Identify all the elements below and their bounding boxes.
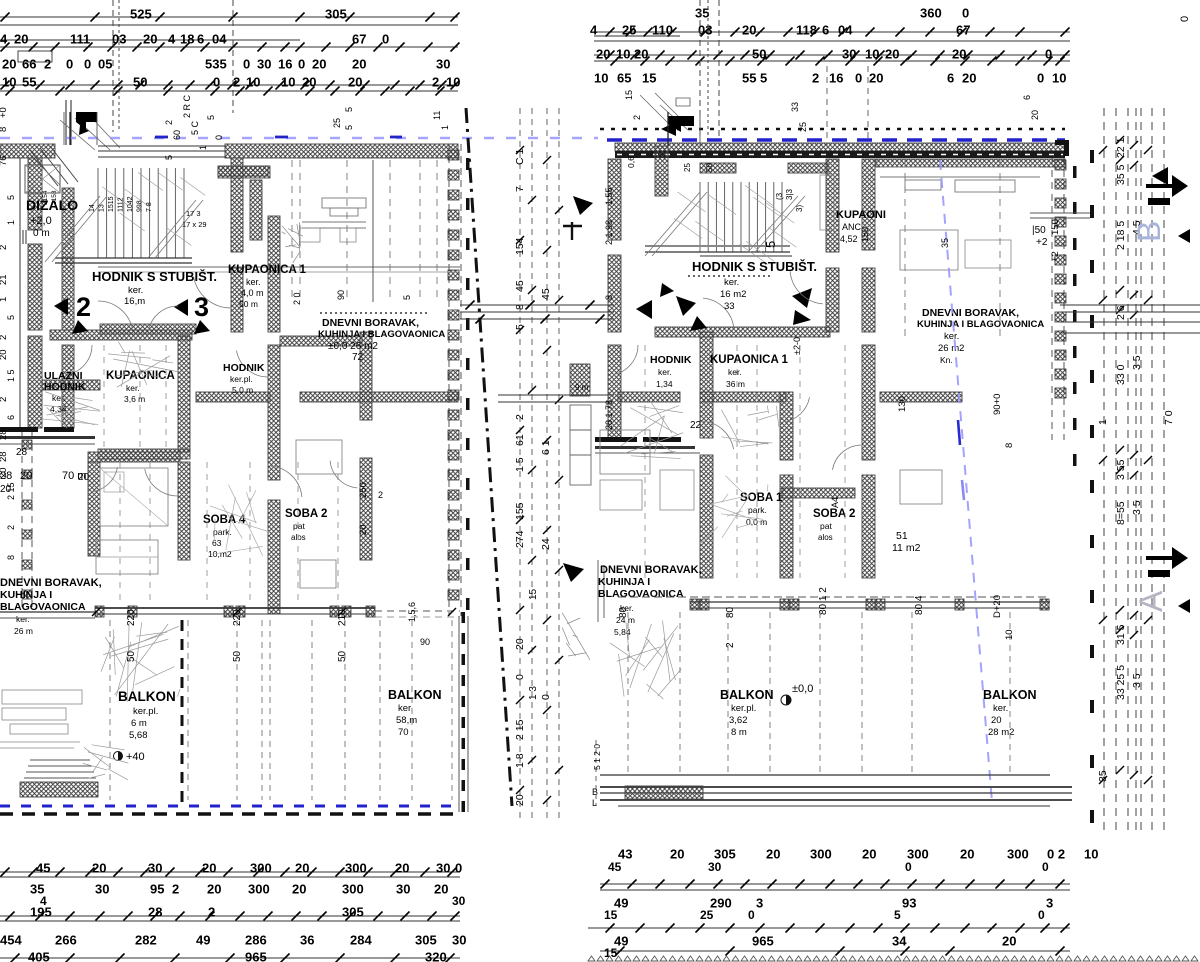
svg-text:20: 20 [292,881,306,896]
door arcs RU [613,271,861,470]
svg-text:1 5: 1 5 [6,369,16,382]
svg-text:0 2: 0 2 [1047,846,1065,861]
bold dashed vertical x182 [181,620,184,802]
svg-text:0,6: 0,6 [626,156,636,168]
svg-text:0: 0 [66,56,73,71]
wall hatch RU vert2 [608,345,621,438]
svg-text:4: 4 [168,31,176,46]
svg-text:110: 110 [652,22,673,37]
svg-text:1 8: 1 8 [514,753,526,768]
svg-text:28: 28 [0,451,9,462]
svg-text:0: 0 [514,674,526,680]
svg-text:28 1 78: 28 1 78 [604,400,614,430]
wall hatched left-edge seg2 [28,336,42,428]
terrace steps LU [24,760,96,778]
svg-text:3: 3 [756,895,763,910]
second hatch top RU [876,159,1065,167]
balcony railing RU [618,597,1050,610]
right margin bold dash col [1090,150,1094,823]
svg-text:220: 220 [126,609,137,626]
svg-text:DNEVNI BORAVAK,: DNEVNI BORAVAK, [322,317,419,329]
svg-text:50: 50 [705,163,714,172]
svg-text:4,52: 4,52 [840,234,858,244]
svg-text:11 m2: 11 m2 [892,542,921,554]
text 150+2 RU east [1032,225,1048,248]
sink icons LU [285,245,295,247]
svg-text:30: 30 [452,894,466,908]
room label SOBA 1 RU [740,492,783,527]
svg-text:0: 0 [455,860,462,875]
svg-text:150: 150 [860,227,870,242]
svg-text:6: 6 [947,70,954,85]
svg-text:1: 1 [440,125,450,130]
svg-text:21: 21 [0,274,9,285]
dim numbers BR rowC2 [604,908,1045,922]
wall hatch RU vert1 [608,255,621,332]
window black bars RU [595,437,700,453]
wall insulation black band RU [615,151,1065,158]
balcony guides LU [110,620,452,800]
entry jambs RU [668,112,700,146]
svg-text:04: 04 [212,31,227,46]
dim ticks BL r1 [1,868,457,877]
parcel line blue darker dashes [155,136,402,139]
svg-text:10: 10 [1052,70,1066,85]
svg-text:286: 286 [245,932,267,947]
svg-text:±2-0: ±2-0 [792,337,802,355]
bed SOBA2 [296,440,342,474]
svg-text:8=55: 8=55 [1115,501,1127,525]
svg-text:KUPAONI: KUPAONI [836,209,886,221]
svg-text:67: 67 [352,31,366,46]
svg-text:3): 3) [795,205,804,212]
svg-text:D+20: D+20 [992,595,1003,618]
stray diagonal marks TL [30,116,120,185]
svg-text:ker.pl.: ker.pl. [133,706,158,717]
balcony dim rotated LU [126,602,430,662]
svg-text:20: 20 [312,56,326,71]
svg-text:1: 1 [198,145,208,150]
wall hatch RU horiz4 [782,488,855,498]
svg-text:72: 72 [352,352,364,363]
wall hatched left-edge seg1 [28,244,42,330]
svg-text:25: 25 [683,163,692,172]
left unit outer edge line [19,158,21,430]
svg-text:80 1 2: 80 1 2 [818,587,829,615]
scattered rotated dims LU [164,94,450,305]
svg-text:ker.: ker. [944,331,959,342]
dimension ticks top-right r2 [606,51,1070,60]
svg-text:26 m2: 26 m2 [938,343,964,354]
svg-text:20: 20 [670,846,684,861]
svg-text:10: 10 [2,74,16,89]
svg-text:65: 65 [617,70,631,85]
svg-text:1,34: 1,34 [656,379,673,389]
svg-text:2 0: 2 0 [292,292,302,305]
dim numbers BR rowC [614,895,1053,910]
svg-text:alos: alos [818,533,833,542]
svg-text:2: 2 [208,904,215,919]
section marker A arrow [1146,547,1188,569]
sofa squiggles RU [610,643,644,666]
svg-text:20: 20 [1030,110,1040,120]
svg-text:1: 1 [1097,419,1109,425]
middle crossing lines1 [460,301,614,324]
svg-text:51: 51 [896,530,908,542]
svg-text:|50: |50 [1032,225,1046,236]
svg-text:16,m: 16,m [124,296,145,307]
svg-text:4,0 m: 4,0 m [241,288,264,298]
svg-text:20: 20 [2,56,16,71]
svg-text:04: 04 [838,22,853,37]
squiggles RU hall [654,416,664,454]
svg-text:274: 274 [514,530,526,548]
svg-text:ker.: ker. [993,703,1008,714]
dimension ticks top-left row2 [1,43,460,52]
svg-text:0 m: 0 m [33,228,50,239]
svg-text:+40: +40 [126,751,145,763]
wall hatch LU vert4 [231,158,243,252]
squiggles RU kupa [721,437,768,444]
middle arrow a [573,196,593,215]
bed SOBA2 RU [900,470,942,504]
svg-text:BALKON: BALKON [118,689,176,704]
svg-text:2: 2 [378,490,383,500]
svg-text:195: 195 [30,904,52,919]
svg-text:10: 10 [594,70,608,85]
parcel blue dashed bottom-left [0,805,460,808]
sofa squiggles LU-bottom [105,637,123,668]
svg-text:34: 34 [892,933,907,948]
svg-text:20: 20 [20,470,32,482]
wall hatch LU vert1 [62,345,74,428]
svg-text:1 5: 1 5 [514,457,526,472]
svg-text:ker.: ker. [658,367,672,377]
svg-text:2: 2 [172,881,179,896]
svg-text:50: 50 [752,46,766,61]
svg-text:35: 35 [695,5,709,20]
wall hatch RU horiz0 [700,163,736,173]
svg-text:20: 20 [434,881,448,896]
wall hatch RU vert5 [780,392,793,460]
svg-text:16: 16 [278,56,292,71]
squiggles soba4 LU [247,492,256,523]
svg-text:BLAGOVAONICA: BLAGOVAONICA [0,601,86,613]
svg-text:0: 0 [1045,46,1052,61]
svg-text:20: 20 [202,860,216,875]
room label HODNIK2 LU [223,362,265,395]
svg-text:11: 11 [432,111,442,120]
stair rot dims RU [683,163,804,248]
svg-text:300: 300 [250,860,272,875]
bed SOBA4 [100,468,168,526]
svg-text:SOBA 2: SOBA 2 [285,508,327,520]
right edge bold dashes LU [466,158,470,610]
window sill lines RU east [1030,213,1090,218]
room label SOBA 4 [203,514,246,559]
svg-text:5: 5 [344,125,354,130]
svg-text:20: 20 [514,794,526,806]
wall hatch LU vert7 [268,345,280,480]
svg-text:1: 1 [6,220,16,225]
svg-text:2 1 98: 2 1 98 [604,220,614,245]
svg-text:SOBA 4: SOBA 4 [203,514,246,526]
svg-text:10: 10 [865,46,879,61]
svg-text:KUPAONICA 1: KUPAONICA 1 [710,354,789,366]
svg-text:266: 266 [55,932,77,947]
svg-text:KUHINJA I BLAGOVAONICA: KUHINJA I BLAGOVAONICA [917,319,1044,330]
svg-text:B: B [1131,221,1167,242]
svg-text:HODNIK S STUBIŠT.: HODNIK S STUBIŠT. [692,259,817,274]
svg-text:0: 0 [382,31,389,46]
svg-text:HODNIK: HODNIK [44,381,86,393]
svg-text:10: 10 [616,46,630,61]
svg-text:22: 22 [690,420,702,431]
dim ticks BR r1 [601,880,1065,889]
svg-text:0: 0 [84,56,91,71]
wall hatch LU horiz1 [98,449,190,459]
svg-text:49: 49 [196,932,210,947]
svg-text:35: 35 [940,238,950,248]
dimension ticks top-right r1 [606,28,1070,37]
wall hatch LU vert0 [62,188,74,330]
svg-text:998: 998 [137,200,144,212]
svg-text:5 1 2 0: 5 1 2 0 [592,744,602,770]
svg-text:9 m: 9 m [575,383,589,392]
dim numbers BR rowB [608,860,1049,874]
apartment markers RU [636,283,812,331]
numbers 28 20 70 [0,470,86,482]
svg-text:HODNIK S STUBIŠT.: HODNIK S STUBIŠT. [92,269,217,284]
svg-text:0: 0 [855,70,862,85]
dotted underline LU [320,312,430,314]
middle vertical dim lines [520,108,559,822]
corner marks right [1152,167,1190,613]
dim ticks BL r3 [11,954,455,962]
dimension numbers top-left rowD [2,74,460,89]
svg-text:(3: (3 [775,192,784,200]
svg-text:20: 20 [596,46,610,61]
room label BALKON LU [114,689,176,763]
wall hatch LU vert8 [268,500,280,614]
svg-text:15: 15 [624,90,634,100]
svg-text:0: 0 [962,5,969,20]
wall hatch RU vert3 [700,332,713,438]
svg-text:155: 155 [514,502,526,520]
svg-text:2 R C: 2 R C [182,94,192,118]
wall hatch RU horiz1 [788,163,828,173]
svg-text:30: 30 [436,56,450,71]
svg-text:20: 20 [862,846,876,861]
middle x-ticks [516,146,563,804]
svg-text:SOBA 2: SOBA 2 [813,508,855,520]
wall hatch RU vert6 [780,475,793,578]
right edge wall posts RU [1052,158,1066,440]
svg-text:10: 10 [446,74,460,89]
wall hatch LU horiz4 [280,336,362,346]
svg-text:965: 965 [752,933,774,948]
middle crossing lines2 [498,395,614,402]
svg-text:18: 18 [180,31,194,46]
svg-text:20: 20 [885,46,899,61]
svg-text:2: 2 [76,292,91,322]
glyph T middle [563,222,582,240]
svg-text:305: 305 [342,904,364,919]
svg-text:80 4: 80 4 [914,595,925,615]
svg-text:ker.pl.: ker.pl. [230,374,253,384]
sofa rect cluster bottom-left corner [0,690,82,748]
svg-text:60: 60 [172,130,182,140]
room label KUPAONICA 1 RU [710,354,789,389]
svg-text:2 15: 2 15 [514,719,526,740]
svg-text:5: 5 [402,295,412,300]
svg-text:A4: A4 [830,497,840,508]
svg-text:30: 30 [842,46,856,61]
wall hatch LU vert12 [250,180,262,240]
room label HODNIK S STUB RU [692,259,817,312]
svg-text:BALKON: BALKON [388,688,441,702]
balcony guides RU [628,612,1010,775]
svg-text:20: 20 [295,860,309,875]
svg-text:33: 33 [790,102,800,112]
svg-text:7 0: 7 0 [1163,410,1175,425]
svg-text:20: 20 [869,70,883,85]
dim numbers BR rowD [614,933,1016,948]
svg-text:300: 300 [342,881,364,896]
svg-text:+2,0: +2,0 [30,215,52,227]
wardrobe LU [96,540,158,574]
wall hatch LU horiz5 [196,392,270,402]
middle dim numbers [514,149,552,807]
wall hatch LU horiz0 [50,330,192,340]
room guide dashes LU [104,345,338,600]
svg-text:ker.: ker. [728,367,742,377]
svg-text:ker.: ker. [126,383,140,393]
small box around 66 [18,51,52,62]
svg-text:1112: 1112 [118,197,125,212]
svg-text:30: 30 [708,860,722,874]
left wall posts lower LU [22,432,32,612]
svg-text:80: 80 [618,606,629,618]
right edge wall posts LU [448,144,461,616]
dimension chain bottom-left lines [0,872,460,958]
dimension numbers top-left rowA [130,6,347,21]
svg-text:26 m: 26 m [14,626,33,636]
svg-text:DNEVNI BORAVAK,: DNEVNI BORAVAK, [0,577,102,589]
wall hatch RU vert7 [826,159,839,252]
svg-text:2: 2 [0,335,9,340]
dimension ticks top-left row1 [1,13,460,22]
svg-text:61: 61 [514,434,526,446]
room label BALKON RU2 [983,688,1036,738]
svg-text:50 m: 50 m [239,299,258,309]
svg-text:16: 16 [829,70,843,85]
svg-text:1: 1 [0,297,9,302]
svg-text:KUHINJA I BLAGOVAONICA: KUHINJA I BLAGOVAONICA [318,329,445,340]
svg-text:36: 36 [300,932,314,947]
svg-text:284: 284 [350,932,372,947]
svg-text:6: 6 [1022,95,1032,100]
svg-text:20: 20 [514,638,526,650]
parcel blue bold dashed right [607,138,1065,141]
wall hatch RU vert8 [826,268,839,332]
svg-text:8: 8 [1004,443,1015,448]
dimension numbers top-right rowC [596,46,1052,61]
svg-text:24: 24 [540,538,552,550]
svg-text:2: 2 [812,70,819,85]
svg-text:0: 0 [905,860,912,874]
svg-text:10: 10 [1004,629,1015,640]
svg-text:6 m: 6 m [131,718,147,729]
svg-text:50: 50 [133,74,147,89]
wall hatch RU vert11 [862,345,875,460]
wall hatch LU vert5 [231,268,243,332]
svg-text:20: 20 [143,31,157,46]
left margin small dims [0,107,90,560]
svg-text:525: 525 [130,6,152,21]
wall hatch RU horiz3 [700,392,786,402]
svg-text:250: 250 [358,482,369,498]
svg-text:90: 90 [420,637,430,647]
svg-text:15: 15 [642,70,656,85]
level marker RU [781,683,813,705]
svg-text:8 m: 8 m [731,727,747,738]
dim ticks BR r3 [616,947,1065,956]
room label ULAZNI HODNIK [44,370,86,414]
svg-text:20: 20 [962,70,976,85]
svg-text:33: 33 [724,301,735,312]
dimension ticks top-right r3 [611,57,1065,66]
svg-text:25: 25 [700,908,714,922]
dim ticks BL r2 [6,912,460,921]
svg-text:10: 10 [281,74,295,89]
svg-text:45: 45 [608,860,622,874]
room label DNEVNI RU-top [917,307,1044,365]
svg-text:45: 45 [36,860,50,875]
svg-text:5: 5 [760,70,767,85]
rot dim +20 RU [992,595,1015,640]
svg-text:+0: +0 [0,107,9,118]
dim numbers BL rowA [36,860,462,875]
door arcs rooms LU [91,461,358,497]
dimension ticks top-left row4 [6,87,445,96]
svg-text:2: 2 [164,120,174,125]
svg-text:Kn.: Kn. [940,355,953,365]
middle shaft boxes [570,383,591,485]
svg-text:8: 8 [604,295,614,300]
svg-text:63: 63 [212,538,222,548]
stray marks TR [640,93,690,130]
wall hatch RU vert10 [862,268,875,332]
svg-text:17 3: 17 3 [186,209,201,218]
dimension numbers top-right rowB [590,22,970,37]
room label KUPAONICA mid [106,370,175,404]
room label HODNIK S STUB [92,269,217,307]
svg-text:2 15: 2 15 [6,482,16,500]
svg-text:14: 14 [89,204,96,212]
squiggles entry LU [45,392,99,410]
svg-text:1515: 1515 [108,196,115,212]
reference dashed vertical TL-b [232,0,234,113]
rot dims 250-20 LU [358,482,383,535]
wall hatch RU vert0 [608,159,621,240]
room label KUPAONICA 1 LU [228,264,307,309]
svg-text:300: 300 [345,860,367,875]
right margin dashed verticals [1104,108,1164,832]
east wall LU lower double+dashes [459,612,468,812]
wall hatch LU vert6 [268,216,280,332]
svg-text:20: 20 [742,22,756,37]
